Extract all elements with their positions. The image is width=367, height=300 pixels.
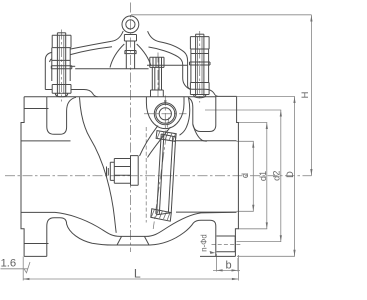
svg-text:d1: d1 [258, 171, 268, 181]
svg-text:D: D [285, 171, 295, 178]
svg-text:d: d [240, 173, 250, 178]
svg-text:H: H [300, 92, 310, 99]
svg-text:L: L [134, 267, 141, 281]
svg-text:b: b [226, 259, 232, 271]
svg-text:d2: d2 [272, 171, 282, 181]
svg-text:1.6: 1.6 [1, 257, 17, 269]
svg-text:n-Φd: n-Φd [199, 234, 208, 252]
